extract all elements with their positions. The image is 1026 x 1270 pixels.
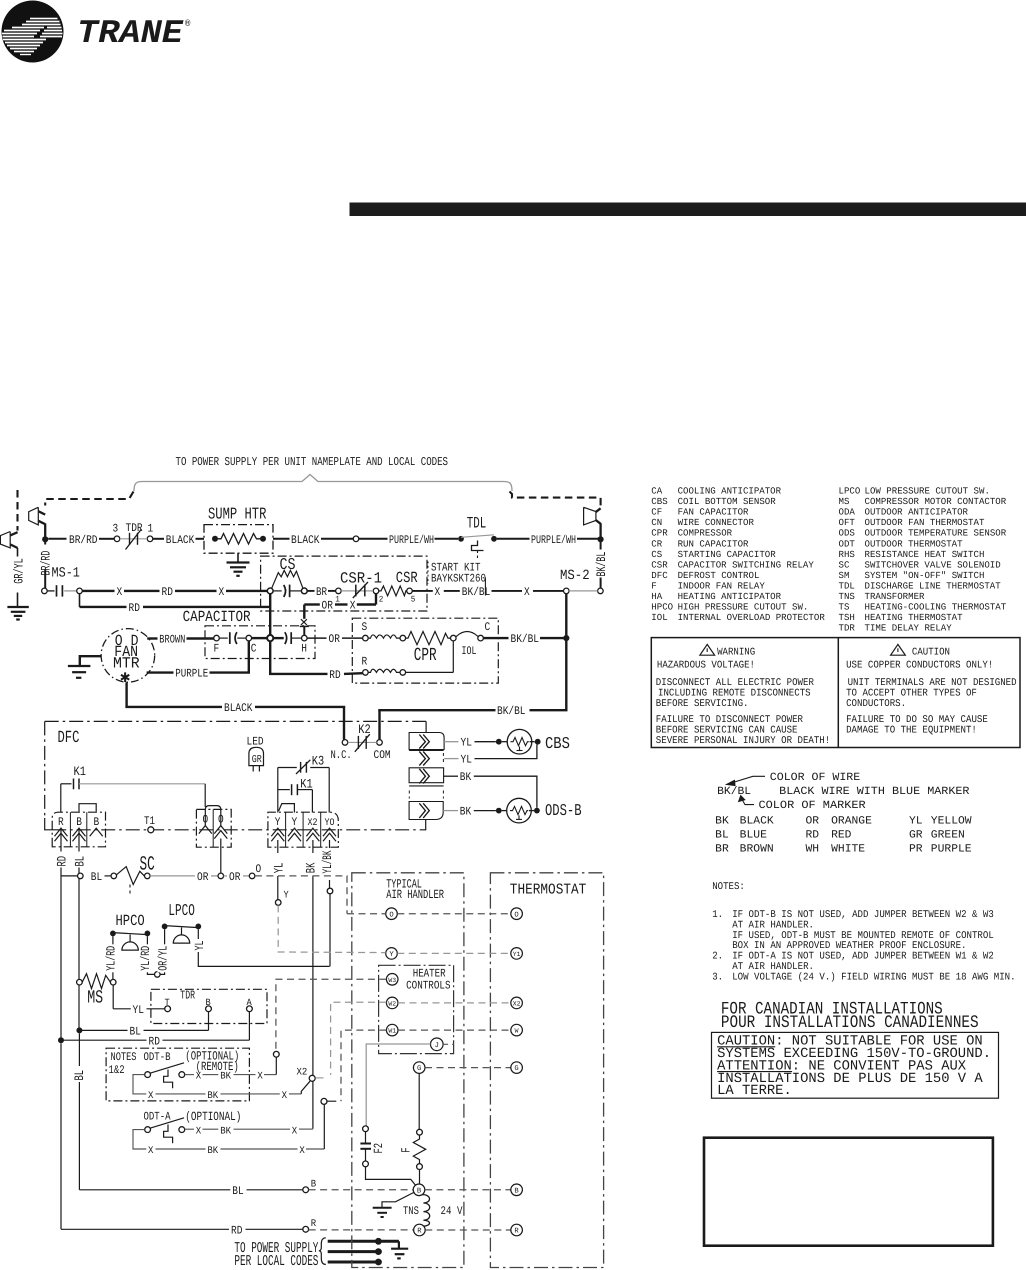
svg-text:HAZARDOUS VOLTAGE!: HAZARDOUS VOLTAGE! <box>657 661 755 672</box>
wire BLACK left <box>153 538 164 540</box>
fan capacitor terminal F <box>214 632 247 655</box>
svg-text:O: O <box>256 863 262 876</box>
svg-text:STARTING CAPACITOR: STARTING CAPACITOR <box>678 549 776 560</box>
wire RD to CPR R <box>269 641 363 682</box>
contact x above H <box>300 619 309 635</box>
svg-text:TSH: TSH <box>839 612 855 623</box>
wire label OR/YL <box>157 944 168 972</box>
svg-text:FAILURE TO DISCONNECT POWER: FAILURE TO DISCONNECT POWER <box>656 715 803 726</box>
svg-text:R: R <box>514 1228 519 1236</box>
svg-text:X2: X2 <box>297 1067 308 1078</box>
relay coil CSR <box>379 569 418 605</box>
wire CS to capacitor junction <box>269 594 271 635</box>
air handler terminal R <box>414 1224 426 1236</box>
svg-text:RD: RD <box>162 586 173 599</box>
svg-text:R: R <box>417 1228 422 1236</box>
wire connector CN 3 <box>409 768 444 786</box>
svg-text:SYSTEM "ON-OFF" SWITCH: SYSTEM "ON-OFF" SWITCH <box>865 570 985 581</box>
svg-text:W: W <box>515 1028 519 1035</box>
svg-text:GR/YL: GR/YL <box>11 558 26 584</box>
field wire W3 dashed to ODT-B <box>276 979 387 1051</box>
header black bar <box>350 203 1026 217</box>
svg-text:B: B <box>311 1180 316 1191</box>
heavy wire OR X from H to CSR 2 <box>304 594 376 619</box>
svg-text:COM: COM <box>374 749 391 762</box>
svg-text:WARNING: WARNING <box>717 648 755 659</box>
indoor fan relay coil F <box>400 1129 426 1169</box>
field wire R dashed <box>309 1229 414 1231</box>
svg-text:TO POWER SUPPLY PER UNIT NAMEP: TO POWER SUPPLY PER UNIT NAMEPLATE AND L… <box>176 455 449 469</box>
outdoor thermostat box ODT-B <box>106 1048 249 1101</box>
svg-text:(REMOTE): (REMOTE) <box>196 1060 239 1074</box>
svg-text:G: G <box>514 1065 518 1073</box>
svg-text:YL/RD: YL/RD <box>139 946 153 971</box>
svg-text:CPR: CPR <box>414 645 437 666</box>
coil bottom sensor CBS <box>496 729 570 754</box>
thermostat box <box>490 873 603 1268</box>
svg-text:SM: SM <box>839 570 850 581</box>
svg-text:BL: BL <box>232 1185 243 1198</box>
svg-text:HEATING-COOLING THERMOSTAT: HEATING-COOLING THERMOSTAT <box>865 601 1007 612</box>
svg-text:PURPLE: PURPLE <box>175 668 208 681</box>
svg-text:CSR: CSR <box>396 569 418 587</box>
starting capacitor CS <box>267 555 307 597</box>
svg-text:3.: 3. <box>712 972 723 983</box>
svg-text:LED: LED <box>247 736 264 749</box>
svg-text:X: X <box>435 586 441 599</box>
splice circle on Y wire <box>275 900 281 906</box>
warning caution box <box>651 638 1020 748</box>
svg-text:BEFORE SERVICING CAN CAUSE: BEFORE SERVICING CAN CAUSE <box>656 726 798 737</box>
svg-text:NOTES:: NOTES: <box>712 882 745 893</box>
svg-text:CONDUCTORS.: CONDUCTORS. <box>846 699 906 710</box>
svg-text:Y: Y <box>284 890 289 901</box>
wire YL lower <box>444 758 458 760</box>
connector horn top left <box>29 507 46 537</box>
svg-text:F2: F2 <box>372 1143 386 1154</box>
svg-text:DISCHARGE LINE THERMOSTAT: DISCHARGE LINE THERMOSTAT <box>865 580 1002 591</box>
svg-text:OR: OR <box>329 633 340 646</box>
svg-text:FAILURE TO DO SO MAY CAUSE: FAILURE TO DO SO MAY CAUSE <box>846 715 988 726</box>
svg-text:LA TERRE.: LA TERRE. <box>717 1083 792 1099</box>
svg-text:B: B <box>76 816 82 829</box>
svg-text:YL: YL <box>193 941 207 951</box>
svg-text:RHS: RHS <box>839 549 856 560</box>
junction dot RD <box>58 1037 64 1043</box>
svg-text:J: J <box>435 1042 439 1050</box>
svg-text:OR: OR <box>322 599 333 612</box>
svg-text:1: 1 <box>148 523 154 536</box>
svg-text:HIGH PRESSURE CUTOUT SW.: HIGH PRESSURE CUTOUT SW. <box>678 601 809 612</box>
wire BL long vertical <box>78 1033 80 1066</box>
field wire W1 to W <box>341 1030 511 1101</box>
svg-text:BEFORE SERVICING.: BEFORE SERVICING. <box>656 699 749 710</box>
MS-2 drop wire BK/BL <box>565 594 567 710</box>
svg-text:X: X <box>282 1091 287 1102</box>
svg-text:OUTDOOR ANTICIPATOR: OUTDOOR ANTICIPATOR <box>865 507 969 518</box>
wire BROWN <box>147 637 157 639</box>
svg-text:BL: BL <box>130 1026 141 1039</box>
Trane logo circle <box>2 1 64 63</box>
typical air handler box <box>352 873 464 1268</box>
contactor contact MS-1 <box>42 565 83 596</box>
svg-text:X2: X2 <box>513 1001 521 1008</box>
svg-text:TDR: TDR <box>180 989 195 1003</box>
svg-text:YL: YL <box>271 863 286 874</box>
svg-text:LPCO: LPCO <box>168 901 194 920</box>
svg-text:DISCONNECT ALL ELECTRIC POWER: DISCONNECT ALL ELECTRIC POWER <box>656 678 814 689</box>
junction dot BL <box>76 1027 82 1033</box>
svg-text:INTERNAL OVERLOAD PROTECTOR: INTERNAL OVERLOAD PROTECTOR <box>678 612 826 623</box>
compressor box CPR <box>352 618 498 683</box>
svg-text:Y: Y <box>275 816 281 829</box>
svg-text:IF USED, ODT-B MUST BE MOUNTED: IF USED, ODT-B MUST BE MOUNTED REMOTE OF… <box>732 931 994 942</box>
svg-text:IF ODT-B IS NOT USED, ADD JUMP: IF ODT-B IS NOT USED, ADD JUMPER BETWEEN… <box>732 910 994 921</box>
switchover valve solenoid SC <box>61 854 155 896</box>
svg-text:ORANGE: ORANGE <box>831 816 872 828</box>
air handler terminal W2 <box>386 997 398 1009</box>
svg-text:X: X <box>148 1146 153 1157</box>
air handler terminal W1 <box>386 1024 398 1036</box>
svg-text:TDL: TDL <box>467 515 487 533</box>
svg-text:1.: 1. <box>712 910 723 921</box>
svg-text:CSR-1: CSR-1 <box>340 570 382 588</box>
svg-text:SEVERE PERSONAL INJURY OR DEAT: SEVERE PERSONAL INJURY OR DEATH! <box>656 736 830 747</box>
start kit label <box>428 562 486 586</box>
svg-text:DFC: DFC <box>58 729 80 748</box>
svg-text:WHITE: WHITE <box>831 843 865 855</box>
svg-text:CONTROLS: CONTROLS <box>406 980 450 993</box>
svg-text:B: B <box>417 1187 422 1195</box>
junction dot CPR-C <box>563 635 569 641</box>
contactor coil MS <box>77 974 116 1009</box>
wire BK below X2 <box>312 840 314 853</box>
svg-text:BK: BK <box>207 1091 218 1102</box>
svg-text:X: X <box>524 586 530 599</box>
svg-text:COLOR OF MARKER: COLOR OF MARKER <box>759 800 867 812</box>
canadian caution box <box>712 1032 999 1099</box>
junction dot top right <box>598 536 604 542</box>
svg-text:TO ACCEPT OTHER TYPES OF: TO ACCEPT OTHER TYPES OF <box>846 688 977 699</box>
svg-text:Y: Y <box>292 816 298 829</box>
wire YL below Y1 <box>277 840 279 853</box>
svg-text:5: 5 <box>411 595 416 605</box>
air handler terminal B <box>413 1184 425 1196</box>
splice circle on purple wire <box>353 536 359 542</box>
svg-text:2.: 2. <box>712 952 723 963</box>
left dashed drop wire <box>45 492 133 506</box>
svg-text:ODT: ODT <box>839 538 856 549</box>
terminal X2 splice <box>297 1067 324 1081</box>
field wire B to thermostat <box>425 1189 511 1191</box>
wire BR <box>307 590 314 592</box>
svg-text:BLACK: BLACK <box>740 816 774 828</box>
svg-text:R: R <box>311 1219 316 1230</box>
wire BR/RD vertical <box>44 541 46 545</box>
notes block <box>712 882 1015 984</box>
svg-text:TRANSFORMER: TRANSFORMER <box>865 591 925 602</box>
svg-text:YL: YL <box>461 754 472 767</box>
svg-text:CAUTION: CAUTION <box>912 648 950 659</box>
svg-text:BL: BL <box>91 871 102 884</box>
svg-text:OR: OR <box>229 871 240 884</box>
svg-text:FAN CAPACITOR: FAN CAPACITOR <box>678 507 749 518</box>
svg-text:BLACK: BLACK <box>166 534 195 547</box>
thermostat terminal B <box>511 1184 523 1196</box>
wire YL/BK below YO <box>329 840 331 848</box>
wire connector CN 1 <box>409 733 444 750</box>
field wire O dashed to air handler <box>255 876 347 914</box>
field wire G dashed <box>425 1067 511 1069</box>
empty box lower right <box>704 1138 993 1246</box>
svg-text:OR/YL: OR/YL <box>156 946 170 971</box>
wire BLACK from fan motor <box>125 682 345 739</box>
svg-text:YO: YO <box>325 818 335 829</box>
transformer TNS <box>403 1195 463 1227</box>
svg-text:B: B <box>514 1187 519 1195</box>
time delay relay box TDR <box>151 989 267 1024</box>
svg-text:YL: YL <box>133 1004 144 1017</box>
right dashed drop wire <box>510 492 601 506</box>
svg-text:BK/BL: BK/BL <box>462 586 491 599</box>
jumper Y1 to Y2 <box>279 804 295 813</box>
svg-text:ODA: ODA <box>839 507 856 518</box>
svg-text:Y1: Y1 <box>513 951 521 958</box>
low pressure cutout LPCO <box>160 901 329 974</box>
connector horn far left <box>0 490 17 548</box>
svg-text:OUTDOOR TEMPERATURE SENSOR: OUTDOOR TEMPERATURE SENSOR <box>865 528 1007 539</box>
outdoor thermostat ODT-A <box>144 1110 313 1143</box>
svg-text:MS: MS <box>87 987 103 1008</box>
contactor contact MS-2 <box>560 568 603 594</box>
svg-text:2: 2 <box>379 595 384 605</box>
svg-text:YL: YL <box>909 816 923 828</box>
svg-text:BK/BL: BK/BL <box>511 633 540 646</box>
svg-text:BLACK: BLACK <box>291 534 320 547</box>
svg-text:X: X <box>350 599 356 612</box>
svg-text:COOLING ANTICIPATOR: COOLING ANTICIPATOR <box>678 486 782 497</box>
sump heater SUMP HTR <box>204 505 273 554</box>
svg-text:3: 3 <box>113 523 119 536</box>
legend abbreviation table <box>651 486 1006 634</box>
svg-text:RD: RD <box>806 830 820 842</box>
capacitor terminal H <box>274 632 308 655</box>
field wire O to thermostat <box>397 913 511 915</box>
svg-text:TS: TS <box>839 601 850 612</box>
wire G to F coil <box>418 1073 420 1129</box>
air handler terminal Y <box>386 948 398 960</box>
svg-text:UNIT TERMINALS ARE NOT DESIGNE: UNIT TERMINALS ARE NOT DESIGNED <box>848 678 1017 689</box>
svg-text:PURPLE/WH: PURPLE/WH <box>389 534 434 547</box>
svg-text:LOW VOLTAGE (24 V.) FIELD WIRI: LOW VOLTAGE (24 V.) FIELD WIRING MUST BE… <box>732 971 1015 983</box>
svg-text:TDL: TDL <box>839 580 855 591</box>
relay contact K2 <box>331 722 391 762</box>
air handler terminal W3 <box>386 974 398 986</box>
ODT-A lower wire <box>133 1098 336 1157</box>
outdoor fan motor OD FAN MTR <box>101 629 155 688</box>
svg-text:T1: T1 <box>144 815 155 828</box>
svg-text:1&2: 1&2 <box>109 1064 125 1077</box>
relay contact K1 right <box>278 777 313 813</box>
field wire R to thermostat <box>425 1229 511 1231</box>
compressor start winding S <box>362 621 451 645</box>
wire F to B <box>419 1170 421 1185</box>
svg-text:ODT-B: ODT-B <box>144 1051 171 1064</box>
capacitor switching relay contact CSR-1 <box>335 570 383 605</box>
svg-text:TNS: TNS <box>403 1205 419 1218</box>
svg-text:RESISTANCE HEAT SWITCH: RESISTANCE HEAT SWITCH <box>865 549 985 560</box>
wire YL from MS to TDR T <box>113 985 165 1017</box>
svg-text:X: X <box>196 1126 201 1137</box>
svg-text:RD: RD <box>231 1224 242 1237</box>
svg-text:YL: YL <box>461 737 472 750</box>
wire PURPLE/WH right <box>497 538 530 540</box>
svg-text:RD: RD <box>149 1035 160 1048</box>
wire from O2 down to SC <box>220 839 222 874</box>
svg-text:RD: RD <box>329 669 340 682</box>
svg-text:X: X <box>196 1072 201 1083</box>
svg-text:PR: PR <box>909 843 923 855</box>
svg-text:✱: ✱ <box>120 669 130 688</box>
thermostat terminal G <box>511 1062 523 1074</box>
svg-text:Y: Y <box>389 951 394 959</box>
svg-text:(OPTIONAL): (OPTIONAL) <box>185 1110 241 1124</box>
defrost control box DFC <box>45 721 426 829</box>
svg-text:CS: CS <box>651 549 662 560</box>
run capacitor terminal C <box>246 635 267 655</box>
svg-text:BK: BK <box>304 862 319 873</box>
svg-text:BK: BK <box>220 1072 231 1083</box>
wire RD to TDR A <box>64 1012 250 1049</box>
brace to power supply <box>134 475 512 492</box>
wire label YL/RD left <box>106 944 117 972</box>
terminal block O O <box>196 806 231 848</box>
svg-text:BK: BK <box>220 1126 231 1137</box>
svg-text:LOW PRESSURE CUTOUT SW.: LOW PRESSURE CUTOUT SW. <box>865 486 990 497</box>
wire BK lower to ODS-B <box>443 810 458 812</box>
wire X BK/BL X to MS-2 <box>412 578 563 599</box>
svg-text:S: S <box>362 621 368 634</box>
compressor run winding R <box>362 641 454 675</box>
svg-text:BK/BL: BK/BL <box>717 786 751 798</box>
svg-text:AT AIR HANDLER.: AT AIR HANDLER. <box>732 920 814 931</box>
svg-text:X: X <box>117 586 123 599</box>
svg-text:BLACK WIRE WITH BLUE MARKER: BLACK WIRE WITH BLUE MARKER <box>779 786 970 798</box>
svg-text:CBS: CBS <box>545 734 570 753</box>
svg-text:OR: OR <box>806 816 820 828</box>
svg-text:ODS: ODS <box>839 528 856 539</box>
svg-text:COMPRESSOR MOTOR CONTACTOR: COMPRESSOR MOTOR CONTACTOR <box>865 496 1007 507</box>
svg-text:RUN CAPACITOR: RUN CAPACITOR <box>678 538 749 549</box>
field wire W2 to X2 <box>331 1002 511 1075</box>
svg-text:USE COPPER CONDUCTORS ONLY!: USE COPPER CONDUCTORS ONLY! <box>846 661 993 672</box>
svg-text:IF ODT-A IS NOT USED, ADD JUMP: IF ODT-A IS NOT USED, ADD JUMPER BETWEEN… <box>732 952 994 963</box>
heater controls box <box>379 965 454 1053</box>
svg-text:NOTES: NOTES <box>111 1051 137 1064</box>
svg-text:YL/RD: YL/RD <box>105 946 119 971</box>
wire OR OR O gray <box>150 863 261 884</box>
svg-text:CS: CS <box>280 555 296 574</box>
svg-text:HPCO: HPCO <box>116 912 145 930</box>
svg-text:BLUE: BLUE <box>740 830 768 842</box>
wire connector CN 2 <box>409 751 444 766</box>
svg-text:G: G <box>417 1065 421 1073</box>
svg-text:TNS: TNS <box>839 591 856 602</box>
svg-text:X: X <box>219 586 225 599</box>
svg-text:X: X <box>299 1146 304 1157</box>
ODT-B switch <box>145 1051 279 1088</box>
svg-text:PURPLE: PURPLE <box>931 843 972 855</box>
thermostat terminal R <box>511 1224 523 1236</box>
svg-text:LPCO: LPCO <box>839 486 861 497</box>
svg-text:RD: RD <box>129 602 140 615</box>
field wire B dashed <box>309 1189 413 1191</box>
ground below sump heater <box>227 553 250 576</box>
svg-text:BK/BL: BK/BL <box>594 552 609 577</box>
svg-text:SWITCHOVER VALVE SOLENOID: SWITCHOVER VALVE SOLENOID <box>865 559 1002 570</box>
svg-text:THERMOSTAT: THERMOSTAT <box>510 882 587 899</box>
high pressure cutout HPCO <box>110 912 155 979</box>
svg-text:TDR: TDR <box>126 522 143 535</box>
svg-text:GREEN: GREEN <box>931 830 965 842</box>
svg-text:BLACK: BLACK <box>224 702 253 715</box>
relay contact K1 left <box>61 764 205 813</box>
svg-text:W2: W2 <box>388 1001 396 1008</box>
DFC right edge through connectors <box>425 721 427 732</box>
svg-text:HEATER: HEATER <box>413 967 446 980</box>
svg-text:COIL BOTTOM SENSOR: COIL BOTTOM SENSOR <box>678 496 776 507</box>
wire BK/BL vertical right <box>600 541 602 550</box>
svg-text:CBS: CBS <box>651 496 668 507</box>
svg-text:OUTDOOR THERMOSTAT: OUTDOOR THERMOSTAT <box>865 538 963 549</box>
color of wire legend <box>715 772 972 856</box>
svg-text:POUR INSTALLATIONS CANADIENNES: POUR INSTALLATIONS CANADIENNES <box>721 1013 979 1033</box>
wire BK upper <box>444 775 458 777</box>
svg-text:BK: BK <box>715 816 729 828</box>
to power supply text <box>234 1238 325 1270</box>
svg-text:®: ® <box>185 19 191 29</box>
DFC edge below connectors <box>425 820 427 831</box>
svg-text:YELLOW: YELLOW <box>931 816 972 828</box>
svg-text:BK: BK <box>460 806 471 819</box>
svg-text:YL/BK: YL/BK <box>320 850 335 873</box>
svg-text:CR: CR <box>651 538 662 549</box>
thermostat terminal O <box>511 908 523 920</box>
svg-text:AT AIR HANDLER.: AT AIR HANDLER. <box>732 962 814 973</box>
svg-text:BR: BR <box>715 843 729 855</box>
wire RD to R <box>61 1219 316 1237</box>
svg-text:X2: X2 <box>308 818 318 829</box>
wire RD long vertical <box>60 1043 62 1229</box>
svg-text:K3: K3 <box>312 754 324 769</box>
K3 contact circuit <box>278 754 329 813</box>
svg-text:RD: RD <box>55 856 70 867</box>
svg-text:BK: BK <box>207 1146 218 1157</box>
capacitor common junction <box>267 635 273 641</box>
power supply ground <box>391 1241 408 1258</box>
svg-text:BAYKSKT260: BAYKSKT260 <box>431 573 486 586</box>
svg-text:ODS-B: ODS-B <box>545 801 582 820</box>
svg-text:WIRE CONNECTOR: WIRE CONNECTOR <box>678 517 755 528</box>
svg-text:24 V: 24 V <box>441 1205 463 1218</box>
svg-text:N.C.: N.C. <box>331 749 352 762</box>
svg-text:CA: CA <box>651 486 662 497</box>
wire BL to B <box>79 1180 316 1198</box>
wire BK/BL from C to MS-2 drop <box>483 637 508 639</box>
svg-text:WH: WH <box>806 843 820 855</box>
svg-text:CF: CF <box>651 507 662 518</box>
wire YL to CBS <box>444 741 458 743</box>
